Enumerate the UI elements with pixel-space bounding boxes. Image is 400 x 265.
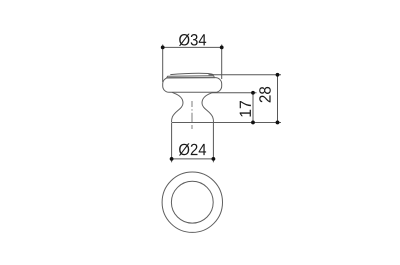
dim dot 17 top [251,91,255,95]
dimension Ø24 extension line left [171,123,173,162]
dimension Ø34 extension line left [162,45,164,83]
dimension Ø34 extension line right [221,45,223,80]
label 28 (rotated) [259,87,271,103]
dim dot Ø34 right [220,46,224,50]
dimension Ø24 extension line right [212,123,214,162]
bottom view inner circle [171,181,213,223]
dimension 17 line [252,93,254,123]
dimension 28 top extension line [209,74,282,76]
dimension Ø34 line [163,46,222,48]
knob cap top arc [170,73,213,74]
knob neck left profile [172,92,184,122]
dim dot Ø24 right [212,157,216,161]
dimension 28 line [277,75,279,123]
dim dot 17 bottom [251,121,255,125]
label Ø24 [179,143,206,155]
label Ø34 [179,34,206,46]
label 17 (rotated) [240,101,251,117]
dim dot 28 bottom [276,121,280,125]
knob cap rim [167,76,215,78]
dim dot 28 top [276,73,280,77]
bottom view outer circle [162,172,222,232]
centerline of knob axis [191,101,193,129]
dim dot Ø34 left [161,46,165,50]
dim dot Ø24 left [170,157,174,161]
knob base bottom line with extension to height dims [172,121,281,123]
dimension 17 top extension line [212,92,257,94]
knob head (side view) [163,78,222,93]
knob neck right profile [202,92,214,122]
dimension Ø24 line [172,158,214,160]
